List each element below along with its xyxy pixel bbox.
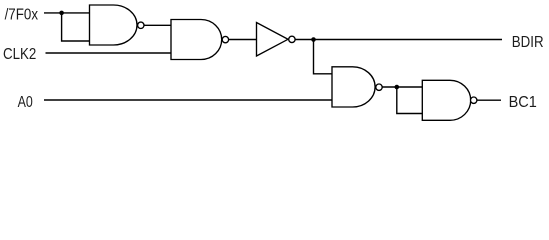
svg-text:/7F0x: /7F0x (5, 7, 38, 24)
node junction on U4 output (395, 85, 400, 90)
wire U5 output to BC1 (478, 99, 502, 101)
label CLK2 (3, 46, 36, 63)
wire loop down to U1 input B (62, 13, 90, 41)
wire U3 output to BDIR (295, 39, 502, 41)
svg-text:A0: A0 (18, 94, 33, 111)
svg-text:CLK2: CLK2 (3, 46, 36, 63)
inverter U3 (257, 23, 296, 57)
node junction on BDIR rail (311, 37, 316, 42)
label BC1 (509, 94, 537, 111)
wire U2 output to U3 input (229, 39, 257, 41)
svg-text:BC1: BC1 (509, 94, 537, 111)
wire CLK2 to U2 input B (46, 52, 172, 54)
wire branch down to U4 input A (314, 40, 333, 74)
wire U1 output to U2 input A (144, 24, 171, 26)
svg-text:BDIR: BDIR (512, 34, 544, 51)
NAND gate U5 (422, 80, 477, 120)
label BDIR (512, 34, 544, 51)
wire /7F0x to U1 input A (44, 12, 90, 14)
wire A0 to U4 input B (44, 99, 332, 101)
NAND gate U4 (332, 67, 382, 107)
label A0 (18, 94, 33, 111)
label /7F0x (5, 7, 38, 24)
wire loop down to U5 input B (397, 87, 423, 114)
NAND gate U1 (90, 5, 145, 45)
node junction on /7F0x (59, 11, 64, 16)
NAND gate U2 (171, 20, 229, 60)
wire U4 output to U5 input A (382, 86, 422, 88)
